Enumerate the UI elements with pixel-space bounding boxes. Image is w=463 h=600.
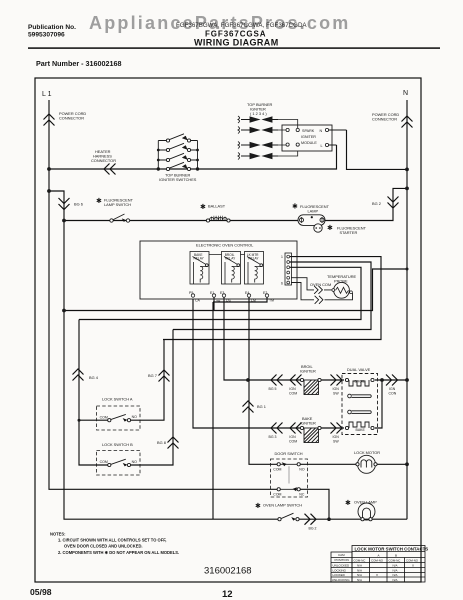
svg-text:OVEN COM: OVEN COM (310, 282, 331, 287)
svg-text:X: X (412, 564, 414, 568)
svg-text:N/A: N/A (393, 573, 398, 577)
svg-text:5995307096: 5995307096 (28, 32, 65, 39)
svg-text:WIRING DIAGRAM: WIRING DIAGRAM (194, 38, 279, 48)
svg-text:L 1: L 1 (42, 91, 52, 98)
svg-text:BG 7: BG 7 (148, 373, 157, 378)
svg-text:N/A: N/A (357, 569, 362, 573)
svg-text:CAM: CAM (338, 553, 345, 557)
svg-text:BALLAST: BALLAST (208, 204, 226, 209)
svg-text:MODULE: MODULE (301, 141, 317, 145)
svg-text:FGF367BGWA, FGF367CGWA, FGF367: FGF367BGWA, FGF367CGWA, FGF367CGDA (176, 22, 307, 29)
svg-text:LOCKING: LOCKING (333, 569, 347, 573)
svg-text:E2: E2 (263, 291, 267, 295)
svg-text:316002168: 316002168 (204, 566, 252, 577)
svg-text:OVEN DOOR CLOSED AND UNLOCKED.: OVEN DOOR CLOSED AND UNLOCKED. (64, 544, 143, 549)
svg-text:DUAL VALVE: DUAL VALVE (347, 367, 371, 372)
svg-text:SW: SW (333, 439, 339, 443)
svg-text:IGNITER: IGNITER (300, 369, 316, 374)
svg-text:A: A (378, 554, 380, 558)
svg-text:LOCKED: LOCKED (333, 573, 346, 577)
svg-text:TM: TM (269, 299, 274, 303)
svg-text:N/A: N/A (357, 573, 362, 577)
svg-text:COM-NO: COM-NO (406, 559, 419, 563)
svg-text:CON: CON (389, 391, 397, 395)
svg-text:1: 1 (281, 255, 283, 259)
svg-text:COM-NC: COM-NC (389, 559, 401, 563)
svg-text:E4: E4 (245, 291, 249, 295)
svg-text:N: N (403, 90, 408, 97)
svg-text:LAMP: LAMP (308, 208, 319, 213)
svg-text:N/A: N/A (357, 564, 362, 568)
svg-text:DS: DS (226, 299, 232, 303)
svg-text:POSITION: POSITION (335, 558, 349, 562)
svg-text:RELAY: RELAY (194, 256, 205, 260)
svg-text:NC: NC (299, 492, 305, 496)
svg-text:L: L (321, 144, 323, 148)
svg-text:SW: SW (333, 391, 339, 395)
svg-text:BG 3: BG 3 (269, 435, 277, 439)
svg-text:6: 6 (281, 282, 283, 286)
svg-text:Part Number - 316002168: Part Number - 316002168 (36, 59, 122, 68)
svg-text:Publication No.: Publication No. (28, 24, 76, 31)
svg-text:COM: COM (100, 460, 108, 464)
svg-text:X: X (376, 573, 378, 577)
svg-text:UNLOCKED: UNLOCKED (333, 564, 351, 568)
svg-text:BG 8: BG 8 (157, 440, 166, 445)
svg-text:CONNECTOR: CONNECTOR (372, 117, 397, 122)
svg-text:N/A: N/A (393, 564, 398, 568)
svg-text:( 1 2 3 4 ): ( 1 2 3 4 ) (250, 111, 267, 116)
svg-text:BAKE: BAKE (356, 428, 366, 432)
svg-text:BG 6: BG 6 (74, 202, 83, 207)
svg-text:✱: ✱ (345, 499, 351, 507)
svg-text:✱: ✱ (292, 203, 298, 211)
svg-text:12: 12 (222, 589, 233, 600)
svg-text:STARTER: STARTER (340, 230, 358, 235)
svg-text:NO: NO (132, 415, 138, 419)
svg-text:COM-NC: COM-NC (354, 559, 366, 563)
svg-text:✱: ✱ (200, 203, 206, 211)
svg-text:2. COMPONENTS WITH ✱ DO NOT A: 2. COMPONENTS WITH ✱ DO NOT APPEAR ON AL… (58, 550, 179, 555)
svg-text:BROIL: BROIL (355, 380, 366, 384)
svg-text:LOCK MOTOR: LOCK MOTOR (354, 450, 380, 455)
svg-text:CA: CA (195, 299, 201, 303)
svg-text:DOOR SWITCH: DOOR SWITCH (275, 451, 303, 456)
svg-text:N/A: N/A (393, 569, 398, 573)
svg-text:TB: TB (216, 300, 221, 304)
svg-text:N/A: N/A (393, 578, 398, 582)
svg-text:RELAY: RELAY (248, 256, 259, 260)
svg-text:E3: E3 (220, 291, 224, 295)
svg-text:LOCK MOTOR SWITCH CONTACTS: LOCK MOTOR SWITCH CONTACTS (355, 547, 429, 552)
svg-text:LOCK SWITCH B: LOCK SWITCH B (102, 442, 133, 447)
svg-text:BG 5: BG 5 (269, 387, 277, 391)
svg-text:BG 2: BG 2 (372, 201, 381, 206)
svg-text:COM-NO: COM-NO (371, 559, 384, 563)
svg-text:COM: COM (273, 468, 281, 472)
svg-text:N: N (320, 129, 323, 133)
svg-text:LAMP SWITCH: LAMP SWITCH (104, 202, 131, 207)
svg-text:COM: COM (100, 415, 108, 419)
svg-text:CONNECTOR: CONNECTOR (91, 158, 116, 163)
svg-text:LOCK SWITCH A: LOCK SWITCH A (102, 397, 133, 402)
svg-text:OVEN LAMP SWITCH: OVEN LAMP SWITCH (263, 503, 302, 508)
svg-text:CONNECTOR: CONNECTOR (59, 116, 84, 121)
svg-text:N/A: N/A (357, 578, 362, 582)
svg-text:BG 4: BG 4 (89, 375, 99, 380)
svg-text:SPARK: SPARK (302, 129, 315, 133)
svg-text:P5: P5 (189, 291, 193, 295)
svg-text:1. CIRCUIT SHOWN WITH ALL CON: 1. CIRCUIT SHOWN WITH ALL CONTROLS SET T… (58, 538, 166, 543)
svg-text:✱: ✱ (327, 224, 333, 232)
svg-text:ELECTRONIC OVEN CONTROL: ELECTRONIC OVEN CONTROL (196, 243, 254, 248)
svg-text:NOTES:: NOTES: (50, 532, 65, 537)
svg-text:RELAY: RELAY (225, 256, 236, 260)
svg-text:BG 2: BG 2 (309, 527, 317, 531)
svg-text:E1: E1 (210, 291, 214, 295)
svg-text:IGNITER: IGNITER (300, 421, 316, 426)
svg-text:COM: COM (289, 439, 297, 443)
svg-text:COM: COM (273, 492, 281, 496)
svg-text:BG 1: BG 1 (257, 404, 266, 409)
svg-text:COM: COM (289, 391, 297, 395)
svg-text:LM: LM (251, 299, 256, 303)
svg-text:UNLOCKING: UNLOCKING (332, 578, 351, 582)
svg-text:✱: ✱ (255, 502, 261, 510)
svg-text:✱: ✱ (96, 197, 102, 205)
svg-text:IGNITER SWITCHES: IGNITER SWITCHES (159, 177, 197, 182)
svg-text:05/98: 05/98 (30, 587, 52, 597)
svg-text:IGNITER: IGNITER (301, 135, 316, 139)
svg-text:NO: NO (299, 468, 305, 472)
svg-text:B: B (395, 554, 397, 558)
svg-text:OVEN LAMP: OVEN LAMP (354, 500, 377, 505)
svg-text:NO: NO (132, 460, 138, 464)
